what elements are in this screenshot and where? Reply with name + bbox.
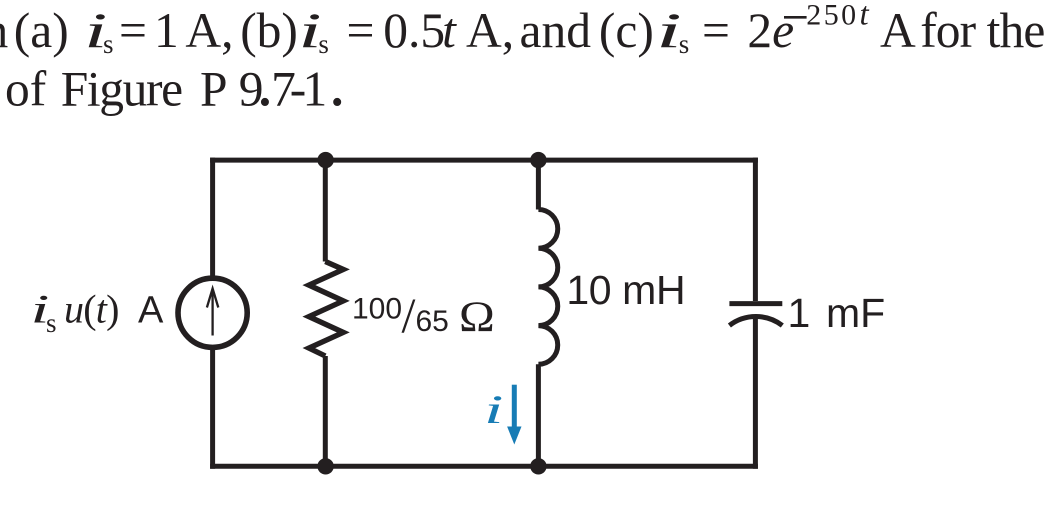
svg-text:A,: A,: [185, 3, 233, 58]
current source I1 circle: [178, 278, 247, 347]
svg-text:A: A: [138, 290, 164, 332]
resistor R1 zigzag: [309, 262, 343, 357]
svg-text:Ω: Ω: [459, 292, 495, 340]
svg-text:1: 1: [788, 290, 811, 336]
svg-text:2e: 2e: [747, 3, 794, 58]
node junction dot bottom inductor: [530, 458, 546, 474]
svg-text:100: 100: [352, 293, 402, 326]
svg-text:s: s: [679, 29, 690, 59]
resistor value label 100/65 ohm: [352, 287, 495, 343]
wire top: [210, 158, 758, 163]
svg-text:mF: mF: [826, 290, 885, 336]
wire resistor bottom lead: [323, 356, 328, 466]
node junction dot top inductor: [530, 152, 546, 168]
current source label i_s u(t) A: [31, 287, 165, 339]
svg-text:s: s: [46, 308, 57, 338]
current source I1 arrow: [207, 289, 218, 336]
svg-text:of: of: [5, 62, 47, 117]
svg-text:and: and: [520, 3, 592, 58]
capacitor C1 bottom curved plate: [729, 317, 782, 326]
svg-text:=: =: [347, 3, 375, 58]
svg-text:10 mH: 10 mH: [566, 267, 685, 313]
svg-text:=: =: [702, 3, 730, 58]
wire left lower (source bottom lead): [210, 350, 215, 469]
svg-text:A: A: [880, 3, 916, 58]
svg-text:n: n: [0, 3, 8, 58]
svg-text:(c): (c): [599, 3, 654, 58]
wire left upper (source top lead): [210, 158, 215, 276]
svg-text:=: =: [119, 3, 147, 58]
svg-text:0.5t: 0.5t: [383, 3, 457, 58]
current i arrow (blue): [507, 385, 521, 445]
svg-text:P: P: [200, 62, 228, 117]
wire inductor top lead: [536, 160, 541, 210]
wire capacitor top lead: [753, 158, 758, 301]
svg-text:A,: A,: [466, 3, 514, 58]
svg-text:u(t): u(t): [64, 287, 119, 332]
svg-text:for the: for the: [920, 3, 1044, 58]
wire inductor bottom lead: [536, 364, 541, 466]
problem statement text line 1: [0, 0, 1044, 59]
svg-text:250t: 250t: [806, 0, 871, 33]
svg-text:(a): (a): [14, 3, 69, 58]
svg-text:s: s: [318, 29, 329, 59]
capacitor C1 top plate: [729, 301, 782, 306]
svg-text:s: s: [103, 29, 114, 59]
inductor L1 coil: [538, 210, 557, 365]
svg-text:i: i: [484, 388, 503, 432]
wire capacitor bottom lead: [753, 318, 758, 469]
wire resistor top lead: [323, 160, 328, 262]
svg-text:1: 1: [154, 3, 179, 58]
svg-text:9.7-1.: 9.7-1.: [239, 62, 344, 117]
node junction dot top resistor: [317, 152, 333, 168]
wire bottom: [210, 464, 758, 469]
node junction dot bottom resistor: [317, 458, 333, 474]
svg-text:(b): (b): [240, 3, 298, 58]
svg-text:65: 65: [416, 305, 449, 338]
svg-text:Figure: Figure: [61, 62, 182, 117]
svg-text:/: /: [402, 287, 416, 343]
